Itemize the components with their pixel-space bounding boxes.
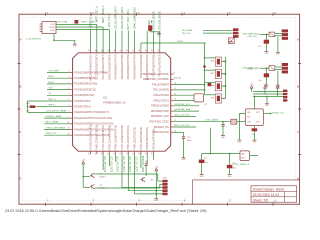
svg-text:MOSI: MOSI	[49, 82, 55, 84]
wire IC left pin y83.9	[47, 83, 70, 85]
frame column tick 6 top	[272, 13, 274, 16]
resistor pack USB_UART_RXD	[282, 29, 288, 32]
IC2 left pin 3	[70, 72, 73, 74]
wire IC bottom pin x109.4	[108, 154, 110, 166]
IC2 top pin 44	[90, 50, 92, 53]
svg-text:PJ1/AUX(PCINT25): PJ1/AUX(PCINT25)	[152, 128, 155, 149]
cap C22 on TOSC	[222, 122, 224, 125]
wire IC left pin y95.3	[47, 94, 70, 96]
svg-text:8: 8	[174, 72, 175, 74]
wire LED to resistor pack USB_UART_RXD	[275, 32, 282, 34]
IC2 top pin 43	[96, 50, 98, 53]
IC2 left pin 9	[70, 106, 73, 108]
frame column tick 4 bottom	[181, 203, 183, 206]
ground under SJ2	[253, 131, 255, 140]
svg-text:XTAL1/TOSC1: XTAL1/TOSC1	[153, 99, 169, 102]
svg-text:PC1/MISO(PCINT9): PC1/MISO(PCINT9)	[74, 77, 96, 80]
svg-text:22p: 22p	[205, 162, 208, 164]
svg-text:GND2/DGND2(PCINT0): GND2/DGND2(PCINT0)	[108, 54, 111, 80]
+3V supply arrow left	[82, 161, 85, 164]
svg-text:PA0(ADCA0/PTCXY0/AC0OUT): PA0(ADCA0/PTCXY0/AC0OUT)	[74, 111, 108, 114]
title block column divider	[284, 191, 286, 202]
wire TOSC_32KHZ	[174, 121, 231, 123]
wire T5 output to connector	[95, 173, 97, 175]
svg-text:10n: 10n	[258, 46, 261, 48]
frame row tick 3 right	[298, 154, 301, 156]
svg-text:OUT_PWM: OUT_PWM	[49, 70, 60, 72]
wire IC top pin x159.8	[159, 31, 161, 50]
svg-text:PC3/SCK(PCINT11): PC3/SCK(PCINT11)	[74, 88, 96, 91]
ground 1 USB_UART_TXD	[264, 84, 268, 86]
wire component to ground	[149, 30, 151, 33]
frame column tick 1 top	[45, 13, 47, 16]
IC2 left pin 5	[70, 83, 73, 85]
svg-text:A: A	[297, 38, 299, 42]
ground 1 USB_UART_RXD	[264, 51, 268, 53]
header JP1 pads	[233, 28, 239, 31]
resistor R12	[30, 105, 36, 108]
IC2 top pin 36	[140, 50, 142, 53]
IC2 bottom pin 25	[134, 151, 136, 154]
ground under C21	[182, 157, 186, 159]
svg-text:B: B	[19, 85, 21, 89]
ground below component	[157, 32, 161, 34]
svg-text:PA7/AIN7(ADC7/PTC7): PA7/AIN7(ADC7/PTC7)	[115, 54, 118, 79]
svg-text:22p: 22p	[233, 168, 236, 170]
wire IC left pin y78.2	[47, 77, 70, 79]
wire LED to resistor pack USB_UART_TXD	[275, 66, 282, 68]
frame inner border right	[295, 17, 297, 180]
U$10 left pin stubs	[40, 23, 42, 25]
wire IC top pin x122.0	[121, 31, 123, 50]
ladder wiring	[205, 57, 216, 59]
svg-text:PD1/SDA(TWIC): PD1/SDA(TWIC)	[151, 110, 169, 113]
svg-text:AGND/AVSS(ADCGND): AGND/AVSS(ADCGND)	[146, 54, 149, 80]
inline jumper on PDI wire	[208, 83, 212, 86]
ground RTC left	[237, 139, 241, 141]
svg-text:23.07.2016 22:58 C:\Users\Bas: 23.07.2016 22:58 C:\Users\Basic\OneDrive…	[5, 209, 207, 213]
svg-text:BC817: BC817	[100, 176, 107, 178]
svg-text:100n: 100n	[187, 140, 191, 142]
wire IC left pin y135.2	[44, 134, 70, 136]
IC2 right pin 38	[171, 126, 174, 128]
IC2 top pin 41	[108, 50, 110, 53]
svg-text:Sheet: 2/5: Sheet: 2/5	[253, 198, 269, 202]
title block row divider 2	[251, 196, 297, 198]
IC2 left pin 1	[70, 117, 73, 119]
wire U$10 pin1 to IC top pin	[56, 24, 97, 26]
svg-text:LCD_D6_OUT8: LCD_D6_OUT8	[128, 156, 130, 173]
ground under C23	[200, 174, 204, 176]
svg-text:MPPT_CURR: MPPT_CURR	[82, 22, 96, 24]
red junction on rail	[203, 65, 206, 68]
IC2 right pin 10	[171, 84, 174, 86]
wire PDI_CLK to header	[203, 32, 233, 34]
svg-text:D: D	[19, 177, 21, 181]
frame column tick 6 bottom	[272, 203, 274, 206]
docfield outer box	[193, 180, 300, 204]
IC2 top pin 39	[121, 50, 123, 53]
svg-text:PC6(PCINT14): PC6(PCINT14)	[74, 106, 90, 109]
ground under C22	[221, 135, 225, 137]
IC2 bottom pin 26	[140, 151, 142, 154]
svg-text:TOSC_32KHZ_B: TOSC_32KHZ_B	[233, 164, 250, 166]
IC2 bottom pin 28	[153, 151, 155, 154]
+3V arrow near connector	[155, 168, 158, 171]
ladder resistor R16	[215, 57, 221, 66]
transistor T5	[90, 174, 92, 176]
VCC decoupling cap C21	[174, 131, 184, 133]
ground below +3V rail	[154, 198, 158, 200]
+3V symbol on bus 3	[276, 86, 279, 89]
svg-text:CHRG: CHRG	[49, 27, 55, 29]
IC2 right pin 8	[171, 73, 174, 75]
svg-text:R17: R17	[211, 73, 214, 75]
IC2 left pin 64	[70, 123, 73, 125]
svg-text:LCD_BL_PWM_OUT0: LCD_BL_PWM_OUT0	[116, 6, 118, 30]
wire U$10 pin3 to IC top pin	[56, 29, 109, 31]
LED device USB_UART_TXD	[269, 66, 275, 71]
svg-text:PD0/SCL(TWIC): PD0/SCL(TWIC)	[151, 105, 169, 108]
frame row tick 2 left	[17, 108, 20, 110]
svg-text:PH7/LED2(PCINT23): PH7/LED2(PCINT23)	[140, 127, 143, 150]
svg-text:LIPO: LIPO	[50, 24, 55, 26]
wire into buffer	[202, 153, 240, 155]
svg-text:C23: C23	[204, 158, 207, 160]
svg-text:PH6/LED1(PCINT22): PH6/LED1(PCINT22)	[134, 127, 137, 150]
svg-text:VCC1/DVDD1(PCINT1): VCC1/DVDD1(PCINT1)	[102, 54, 105, 79]
frame column tick 5 bottom	[227, 203, 229, 206]
svg-text:VCC2/DVDD2(PCINT2): VCC2/DVDD2(PCINT2)	[96, 54, 99, 79]
crystal Q2 box	[194, 94, 204, 102]
svg-text:15.05.2016 14:33: 15.05.2016 14:33	[253, 193, 280, 197]
ground 2 USB_UART_RXD	[276, 51, 280, 53]
wire U$10 pin2 to IC top pin	[56, 26, 103, 28]
IC2 right pin 26	[171, 110, 174, 112]
svg-text:PA6/AIN6(ADC6/PTC6): PA6/AIN6(ADC6/PTC6)	[121, 54, 124, 79]
IC2 right pin 9	[171, 78, 174, 80]
cap C23	[201, 154, 203, 160]
wire IC left pin y123.8	[44, 123, 70, 125]
svg-text:PH1/LCDEN(PCINT17): PH1/LCDEN(PCINT17)	[102, 125, 105, 150]
wire bottom pin short 2	[146, 154, 148, 164]
IC2 bottom pin 24	[127, 151, 129, 154]
+3V symbol on bus 2	[264, 86, 267, 89]
wire IC right pin to ladder top	[174, 84, 205, 86]
cap under junction USB_UART_TXD	[265, 68, 267, 73]
svg-text:R16: R16	[211, 61, 214, 63]
IC2 left pin 8	[70, 100, 73, 102]
svg-text:(+3V_SUPPLY): (+3V_SUPPLY)	[27, 38, 42, 40]
svg-text:PA4/AIN4(ADC4/PTC4): PA4/AIN4(ADC4/PTC4)	[134, 54, 137, 79]
wire IC top pin x128.3	[127, 31, 129, 50]
ground under C24	[228, 174, 232, 176]
IC2 top pin 33	[159, 50, 161, 53]
solder jumper SJ2	[253, 126, 255, 129]
frame column tick 2 bottom	[90, 203, 92, 206]
svg-text:PC5(PCINT13): PC5(PCINT13)	[74, 100, 90, 103]
RTC bus wire 2	[253, 93, 283, 95]
wire IC left pin y129.5	[44, 129, 70, 131]
svg-text:LCD_RS_OUT4: LCD_RS_OUT4	[103, 156, 105, 173]
svg-text:PA2(ADCA2/PTCXY2/LUT0OUT/X2): PA2(ADCA2/PTCXY2/LUT0OUT/X2)	[74, 123, 113, 126]
frame column tick 3 bottom	[136, 203, 138, 206]
svg-text:PA3(ADCA3/PTCXY3/LUT1OUT/X3): PA3(ADCA3/PTCXY3/LUT1OUT/X3)	[74, 128, 113, 131]
frame column tick 5 top	[227, 13, 229, 16]
resistor pack USB_UART_TXD	[282, 63, 288, 66]
frame row tick 2 right	[298, 108, 301, 110]
wire buffer output	[250, 155, 259, 157]
wire RTC right pin to label	[263, 112, 270, 114]
svg-text:PH3/LCDD5(PCINT19): PH3/LCDD5(PCINT19)	[115, 125, 118, 150]
svg-text:PDI_CLK: PDI_CLK	[182, 33, 191, 35]
cap C24	[229, 154, 231, 165]
LED device USB_UART_RXD	[269, 32, 275, 37]
svg-text:B: B	[297, 85, 299, 89]
svg-text:PD2/RXD1_LDO: PD2/RXD1_LDO	[151, 115, 169, 118]
frame inner border left	[22, 17, 24, 200]
svg-text:U$5: U$5	[247, 112, 250, 114]
+3V symbol on bus 1	[250, 86, 253, 89]
svg-text:SolarCharger_RevF: SolarCharger_RevF	[253, 187, 286, 191]
wire U$10 bottom to ground	[53, 34, 55, 41]
module U$10 box	[42, 22, 56, 34]
ladder resistor R17	[215, 69, 221, 78]
wire USB_UART_TXD to LED	[260, 67, 270, 69]
transistor T6	[90, 186, 92, 188]
buffer U$6 box	[240, 151, 250, 161]
svg-text:PF0/BTN0(PCINT26): PF0/BTN0(PCINT26)	[152, 54, 155, 77]
svg-text:18: 18	[89, 153, 91, 155]
svg-text:PDI_DATA/RST: PDI_DATA/RST	[152, 83, 169, 86]
wire PDI_DATA to header	[203, 29, 233, 31]
crystal Y1 32kHz	[231, 119, 237, 124]
svg-text:PC4/SS(PCINT12): PC4/SS(PCINT12)	[74, 94, 94, 97]
IC2 left pin 63	[70, 129, 73, 131]
wire AGND pin	[146, 31, 148, 50]
reset button S1	[229, 38, 235, 44]
wire RTC top pin to bus	[253, 96, 255, 109]
wire IC left pin y118.1	[44, 117, 70, 119]
svg-text:PA1(ADCA1/PTCXY1/AC1OUT/X1): PA1(ADCA1/PTCXY1/AC1OUT/X1)	[74, 117, 112, 120]
svg-text:PH4/LCDD6(PCINT20): PH4/LCDD6(PCINT20)	[121, 125, 124, 150]
wire IC top pin x115.7	[115, 31, 117, 50]
wire USB_UART_RXD to LED	[260, 34, 270, 36]
wire resistor network left	[27, 101, 29, 112]
ladder resistor R19	[215, 94, 221, 103]
frame column tick 3 top	[136, 13, 138, 16]
wire RTC left pin to ground	[239, 112, 245, 114]
test jumper on wire	[75, 20, 79, 24]
ladder vertical rail	[204, 43, 206, 95]
svg-text:LCD_D5_OUT7: LCD_D5_OUT7	[122, 156, 124, 173]
wire IC left pin y72.5	[47, 72, 70, 74]
svg-text:C: C	[297, 130, 299, 134]
ground under U$10	[73, 43, 77, 45]
IC2 left pin 2	[70, 111, 73, 113]
title block box	[251, 186, 297, 202]
svg-text:BUZZER_PWM: BUZZER_PWM	[141, 156, 143, 172]
svg-text:PJ0/BUZZ(PCINT24): PJ0/BUZZ(PCINT24)	[146, 127, 149, 150]
IC2 right pin 25	[171, 105, 174, 107]
svg-text:MPPT_V: MPPT_V	[49, 99, 58, 101]
frame row tick 3 left	[17, 154, 20, 156]
IC2 top pin 38	[127, 50, 129, 53]
svg-text:PC2/MOSI(PCINT10): PC2/MOSI(PCINT10)	[74, 83, 97, 86]
wire IC top pin x134.6	[134, 31, 136, 50]
svg-text:10n: 10n	[258, 80, 261, 82]
wire IC left pin y89.6	[47, 89, 70, 91]
decoupling resistor near AGND	[148, 20, 150, 25]
svg-text:PH5/LCDD7(PCINT21): PH5/LCDD7(PCINT21)	[127, 125, 130, 150]
IC2 left pin 6	[70, 89, 73, 91]
svg-text:PF1/BTN1(PCINT27): PF1/BTN1(PCINT27)	[159, 54, 162, 77]
IC2 bottom pin 19	[96, 151, 98, 154]
RTC bus wire 1	[253, 91, 283, 93]
wire TOSC to crystal area	[140, 43, 142, 50]
IC2 right pin 13	[171, 100, 174, 102]
frame inner border bottom	[23, 200, 193, 202]
IC2 top pin 42	[102, 50, 104, 53]
svg-text:LCD_D7_OUT9: LCD_D7_OUT9	[135, 156, 137, 173]
svg-text:TOSC1: TOSC1	[177, 41, 185, 43]
frame column tick 1 bottom	[45, 203, 47, 206]
svg-text:PH2/LCDD4(PCINT18): PH2/LCDD4(PCINT18)	[108, 125, 111, 150]
IC2 bottom pin 27	[146, 151, 148, 154]
wire xtal pins	[174, 94, 194, 96]
svg-text:TOSC_32KHZ: TOSC_32KHZ	[205, 120, 219, 122]
IC2 top pin 37	[134, 50, 136, 53]
wire bottom pin to connector 4	[127, 154, 129, 191]
wire SDA	[174, 110, 199, 112]
svg-text:SCK: SCK	[49, 88, 54, 90]
frame row tick 1 right	[298, 63, 301, 65]
frame outer border	[19, 14, 300, 204]
IC2 bottom pin 21	[108, 151, 110, 154]
IC2 left pin 4	[70, 77, 73, 79]
title block row divider 1	[251, 190, 297, 192]
wire resistor pack down USB_UART_RXD	[277, 37, 279, 52]
resistor pack RN2	[283, 90, 287, 92]
svg-text:TEMP_NTC: TEMP_NTC	[46, 133, 57, 135]
svg-text:RTC: RTC	[256, 112, 260, 114]
svg-text:R18: R18	[211, 85, 214, 87]
IC2 top pin 40	[115, 50, 117, 53]
wire IC left pin y101.0	[47, 100, 70, 102]
svg-text:BTN_DN_SENSE: BTN_DN_SENSE	[160, 11, 162, 30]
frame column tick 4 top	[181, 13, 183, 16]
IC2 bottom pin 18	[90, 151, 92, 154]
wire bottom pin to connector 5	[134, 154, 136, 194]
IC2 right pin 12	[171, 94, 174, 96]
svg-text:PD4/LDO_PG: PD4/LDO_PG	[154, 126, 169, 129]
IC2 bottom pin 20	[102, 151, 104, 154]
svg-text:32KHZ_CLK: 32KHZ_CLK	[272, 113, 284, 115]
svg-text:+3V3_PDI: +3V3_PDI	[247, 36, 257, 38]
wire Y1 to RTC box	[237, 121, 246, 123]
ground under S1	[228, 41, 232, 43]
svg-text:(+3.3V): (+3.3V)	[174, 78, 181, 80]
svg-text:MISO: MISO	[49, 76, 55, 78]
svg-text:GND3/DGND3(PCINT5): GND3/DGND3(PCINT5)	[89, 124, 92, 150]
wire from TOSC down to buffer	[209, 128, 211, 154]
svg-text:BTN_UP_SENSE: BTN_UP_SENSE	[153, 11, 155, 30]
IC2 top pin 35	[146, 50, 148, 53]
svg-text:U$6: U$6	[241, 154, 244, 156]
svg-text:MPPT_I: MPPT_I	[49, 105, 57, 107]
frame column tick 2 top	[90, 13, 92, 16]
svg-text:A: A	[19, 38, 21, 42]
IC2 right pin 11	[171, 89, 174, 91]
wire IC left pin y112.4	[44, 111, 70, 113]
svg-text:LCD_D4_OUT6: LCD_D4_OUT6	[116, 156, 118, 173]
wire SCL	[174, 105, 199, 107]
svg-text:PH0/LCDRS(PCINT16): PH0/LCDRS(PCINT16)	[96, 125, 99, 150]
RTC bus wire 3	[253, 95, 283, 97]
wire bottom pin short 3	[153, 154, 155, 160]
svg-text:PA5/AIN5(ADC5/PTC5): PA5/AIN5(ADC5/PTC5)	[127, 54, 130, 79]
wire IC bottom pin x103.1	[102, 154, 104, 170]
ground 2 USB_UART_TXD	[276, 85, 280, 87]
IC2 left pin 7	[70, 94, 73, 96]
frame inner border top	[23, 16, 296, 18]
wire +3V to transistors	[82, 164, 84, 187]
frame row tick 1 left	[17, 63, 20, 65]
svg-text:AVCC/VREFA(ADCREF): AVCC/VREFA(ADCREF)	[89, 54, 92, 81]
wire bottom pin short 1	[140, 154, 142, 168]
wire IC top pin x153.5	[153, 31, 155, 50]
svg-text:LCD_EN_OUT5: LCD_EN_OUT5	[109, 156, 111, 173]
IC2 left pin 62	[70, 134, 73, 136]
svg-text:MOD: MOD	[50, 30, 55, 32]
RTC oscillator U$5 box	[245, 109, 263, 126]
wire resistor pack down USB_UART_TXD	[277, 71, 279, 86]
IC2 right pin 37	[171, 121, 174, 123]
svg-text:ATXMEGA128A1-AU: ATXMEGA128A1-AU	[103, 102, 126, 105]
IC2 right pin 36	[171, 115, 174, 117]
microcontroller IC2 outline	[73, 53, 171, 151]
connector SV2 pads	[162, 180, 167, 183]
svg-text:C: C	[19, 130, 21, 134]
IC2 top pin 34	[153, 50, 155, 53]
wire +3V down to ground	[155, 171, 157, 199]
svg-text:PDI_CLK(PCI): PDI_CLK(PCI)	[153, 89, 169, 92]
wire IC right pin to ladder bottom	[174, 89, 205, 91]
svg-text:PD3/TXD1_TOSC: PD3/TXD1_TOSC	[150, 121, 170, 124]
transistor T7	[140, 179, 142, 181]
wire T6 output to connector	[95, 187, 97, 189]
ladder resistor R18	[215, 82, 221, 91]
svg-text:19: 19	[95, 153, 97, 155]
+3V arrow at T7	[145, 163, 148, 166]
svg-text:XTAL2/TOSC2: XTAL2/TOSC2	[153, 94, 169, 97]
wire bottom pin to connector 3	[121, 154, 123, 187]
IC2 right pin 44	[171, 131, 174, 133]
IC2 bottom pin 23	[121, 151, 123, 154]
wire IC bottom pin x115.7	[115, 154, 117, 162]
ground tap on bus wire 3	[266, 96, 268, 103]
cap under junction USB_UART_RXD	[265, 35, 267, 40]
IC2 bottom pin 22	[115, 151, 117, 154]
wire IC left pin y106.7	[47, 106, 70, 108]
svg-text:OSC: OSC	[247, 121, 252, 123]
svg-text:TOSC2/XT32K(PCI28): TOSC2/XT32K(PCI28)	[140, 54, 143, 78]
svg-text:R19: R19	[211, 97, 214, 99]
